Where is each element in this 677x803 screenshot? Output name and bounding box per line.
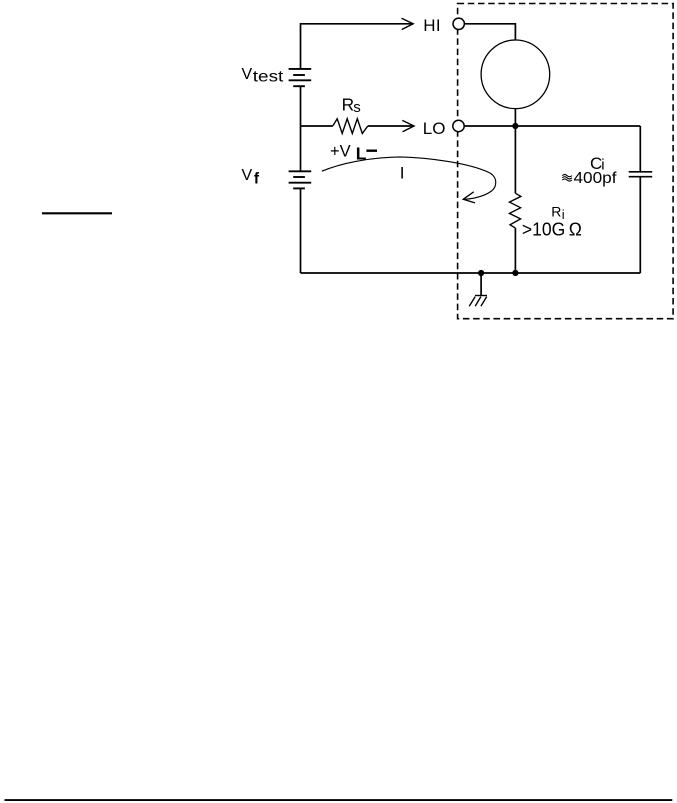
- ground stub wire: [480, 273, 482, 296]
- ground symbol: [469, 296, 487, 307]
- battery Vtest: [289, 69, 312, 86]
- horizontal rule (left margin): [42, 212, 112, 214]
- wire: meter to LO node: [514, 109, 516, 126]
- svg-text:V: V: [242, 66, 253, 83]
- resistor Rs (zigzag): [333, 119, 368, 134]
- junction: ground node: [478, 270, 484, 276]
- svg-text:test: test: [253, 69, 284, 86]
- wire: Ri upper lead: [514, 126, 516, 193]
- capacitor Ci: [629, 172, 653, 177]
- junction: Ri bottom node: [512, 270, 518, 276]
- battery Vf: [289, 171, 312, 188]
- wire: bottom return: [301, 272, 641, 274]
- svg-text:I: I: [400, 163, 405, 182]
- arrowhead (current loop, pointing down-left): [463, 192, 475, 203]
- label Ci value approx 400pf: [562, 175, 572, 182]
- page footer rule: [5, 799, 673, 801]
- arrowhead (HI lead): [402, 18, 414, 29]
- wire: Rs junction to Vf: [300, 126, 302, 171]
- svg-text:400pf: 400pf: [574, 170, 618, 187]
- wire: LO terminal to input node and Ci branch: [464, 125, 640, 127]
- svg-text:f: f: [254, 170, 260, 187]
- svg-text:HI: HI: [423, 16, 441, 35]
- meter U1 (circle): [481, 40, 550, 109]
- svg-text:>10G Ω: >10G Ω: [522, 218, 582, 239]
- terminal LO: [453, 120, 464, 131]
- wire: source positive lead to HI: [301, 24, 414, 69]
- wire: Rs right lead: [368, 125, 414, 127]
- wire: Ci lower lead: [639, 177, 641, 273]
- arrowhead (LO lead): [402, 120, 414, 131]
- resistor Ri (zigzag): [509, 193, 521, 228]
- wire: Vtest to Rs junction: [300, 86, 302, 126]
- svg-text:LO: LO: [423, 119, 446, 138]
- svg-text:R: R: [551, 204, 561, 220]
- wire: Ri lower lead: [514, 228, 516, 273]
- current loop arc: [322, 157, 496, 200]
- svg-text:s: s: [353, 99, 361, 116]
- svg-text:+V: +V: [330, 142, 351, 160]
- terminal HI: [453, 18, 464, 29]
- wire: Rs left lead: [301, 125, 333, 127]
- wire: HI terminal to meter: [465, 24, 516, 40]
- DMM enclosure (dashed box): [458, 4, 673, 319]
- junction: LO input node: [512, 123, 518, 129]
- svg-text:V: V: [242, 167, 253, 184]
- wire: Ci upper lead: [639, 126, 641, 172]
- wire: Vf negative lead down: [300, 188, 302, 273]
